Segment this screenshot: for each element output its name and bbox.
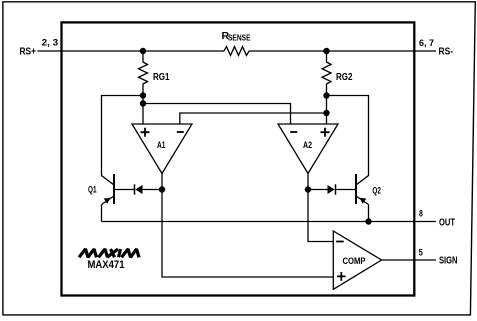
resistor RSENSE	[222, 30, 252, 55]
junction RG2 bottom / crossover	[323, 110, 329, 116]
junction RG1 bottom / collector branch	[140, 92, 146, 98]
MAXIM logo	[79, 249, 139, 257]
wire RS- top rail (RSENSE to pin 6,7)	[249, 50, 436, 52]
svg-text:6, 7: 6, 7	[419, 38, 434, 49]
wire RG2 bottom to Q2 collector	[327, 96, 369, 186]
svg-text:A2: A2	[303, 140, 312, 151]
transistor Q2	[356, 174, 381, 222]
junction RG1 top	[140, 48, 146, 54]
junction RG2 top	[323, 48, 329, 54]
op-amp A2	[278, 124, 338, 174]
junction A2 output / diode node	[305, 186, 311, 192]
op-amp A1	[132, 124, 192, 174]
resistor RG2	[322, 51, 353, 124]
svg-text:8: 8	[419, 209, 423, 220]
svg-text:5: 5	[419, 248, 424, 259]
svg-text:Q2: Q2	[372, 186, 381, 197]
wire RS+ top rail (pin 2,3 to RSENSE)	[38, 50, 225, 52]
junction Q2 emitter / OUT rail	[365, 218, 371, 224]
svg-text:Q1: Q1	[88, 185, 97, 196]
svg-text:RG1: RG1	[153, 71, 170, 83]
resistor RG1	[139, 51, 170, 124]
svg-text:OUT: OUT	[439, 218, 455, 229]
wire OUT rail (Q1 emitter to pin 8)	[102, 221, 437, 223]
svg-text:SIGN: SIGN	[439, 256, 458, 267]
svg-text:RG2: RG2	[336, 71, 353, 83]
junction RG1 bottom / crossover	[140, 100, 146, 106]
junction RG2 bottom / collector branch	[323, 92, 329, 98]
wire A1 output down to COMP + input	[162, 174, 333, 278]
wire crossover RG1 node to A2 inverting input	[143, 104, 291, 125]
wire RG1 bottom to Q1 collector	[102, 96, 144, 186]
wire crossover RG2 node to A1 inverting input	[180, 113, 327, 124]
junction A1 output / diode node	[159, 186, 165, 192]
svg-text:2, 3: 2, 3	[42, 38, 59, 49]
svg-text:MAX471: MAX471	[88, 259, 125, 271]
comparator COMP	[333, 231, 381, 289]
diode D2 (Q2 base clamp)	[308, 184, 355, 194]
svg-text:A1: A1	[157, 140, 166, 151]
svg-text:RS-: RS-	[439, 47, 454, 58]
svg-text:COMP: COMP	[343, 256, 367, 267]
transistor Q1	[88, 174, 114, 222]
wire A2 output down to COMP - input	[308, 174, 333, 242]
wire SIGN output (COMP to pin 5)	[382, 259, 436, 261]
svg-text:RS+: RS+	[20, 47, 37, 58]
diode D1 (Q1 base clamp)	[115, 184, 162, 194]
MAX471 IC outline	[62, 22, 415, 295]
svg-text:SENSE: SENSE	[228, 34, 251, 43]
